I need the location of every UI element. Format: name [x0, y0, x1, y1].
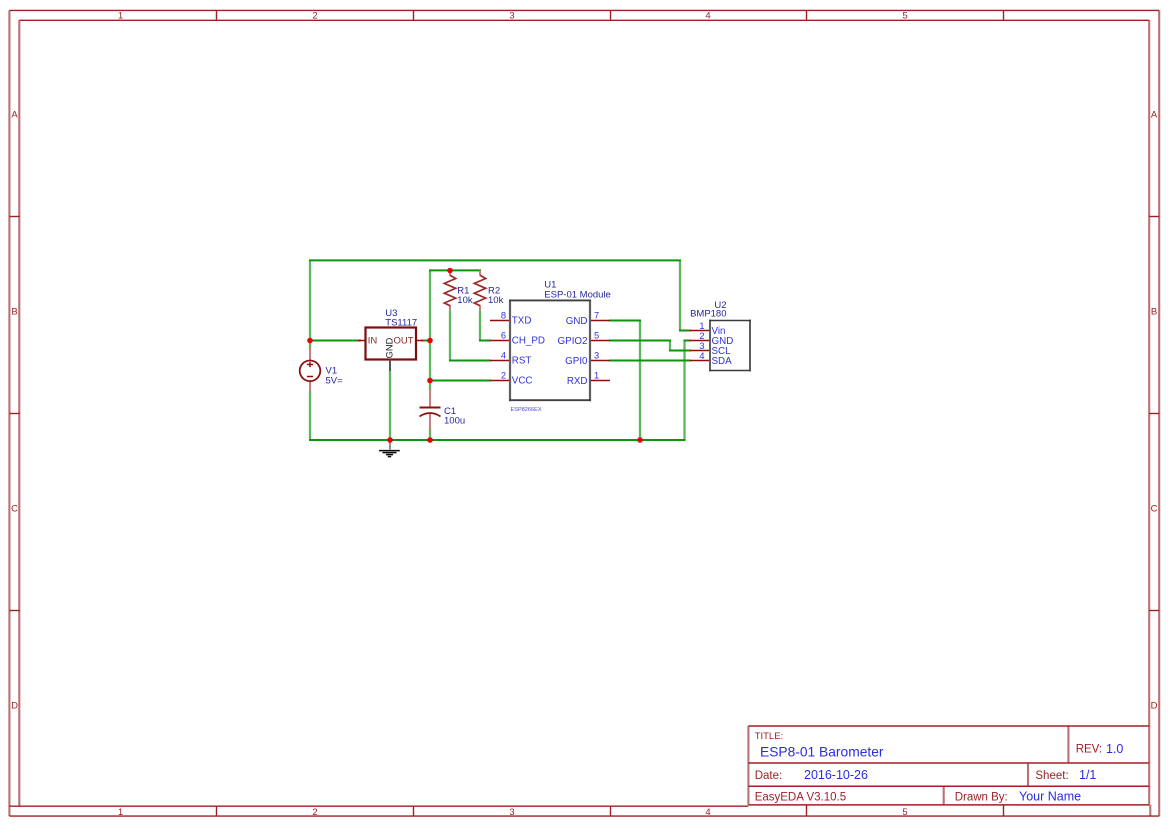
svg-text:1: 1: [594, 371, 599, 381]
svg-text:ESP-01 Module: ESP-01 Module: [544, 290, 611, 301]
svg-text:Your Name: Your Name: [1019, 790, 1081, 804]
svg-text:B: B: [11, 306, 17, 317]
svg-text:BMP180: BMP180: [690, 309, 726, 320]
svg-text:D: D: [11, 700, 18, 711]
svg-text:3: 3: [699, 341, 704, 351]
svg-text:SDA: SDA: [712, 356, 733, 367]
svg-text:GND: GND: [385, 337, 395, 358]
svg-text:1: 1: [118, 807, 123, 818]
svg-text:3: 3: [594, 351, 599, 361]
svg-text:2: 2: [312, 807, 317, 818]
svg-text:Drawn By:: Drawn By:: [955, 791, 1008, 803]
svg-text:5: 5: [594, 331, 599, 341]
svg-text:1/1: 1/1: [1079, 768, 1096, 782]
svg-text:1: 1: [699, 321, 704, 331]
svg-text:100u: 100u: [444, 415, 465, 426]
svg-text:4: 4: [705, 10, 710, 21]
svg-text:5: 5: [902, 10, 907, 21]
svg-text:IN: IN: [368, 336, 378, 347]
svg-text:RXD: RXD: [567, 376, 588, 387]
svg-text:2016-10-26: 2016-10-26: [804, 768, 868, 782]
svg-text:GPI0: GPI0: [565, 356, 588, 367]
svg-text:1: 1: [118, 10, 123, 21]
svg-text:RST: RST: [512, 356, 532, 367]
svg-text:TXD: TXD: [512, 316, 532, 327]
svg-text:8: 8: [501, 311, 506, 321]
svg-text:7: 7: [594, 311, 599, 321]
svg-text:2: 2: [699, 331, 704, 341]
svg-text:GPIO2: GPIO2: [558, 336, 588, 347]
svg-text:GND: GND: [566, 316, 588, 327]
svg-text:CH_PD: CH_PD: [512, 336, 545, 347]
svg-text:VCC: VCC: [512, 376, 533, 387]
svg-text:5: 5: [902, 807, 907, 818]
svg-text:B: B: [1151, 306, 1157, 317]
svg-text:10k: 10k: [488, 295, 504, 306]
svg-text:A: A: [11, 109, 18, 120]
svg-text:Date:: Date:: [755, 770, 783, 782]
svg-text:4: 4: [705, 807, 710, 818]
svg-text:REV:: REV:: [1076, 744, 1102, 756]
svg-text:C: C: [1151, 503, 1158, 514]
svg-text:5V=: 5V=: [326, 375, 344, 386]
svg-text:D: D: [1151, 700, 1158, 711]
svg-text:ESP8266EX: ESP8266EX: [511, 407, 542, 413]
svg-text:6: 6: [501, 331, 506, 341]
svg-text:3: 3: [509, 807, 514, 818]
svg-text:EasyEDA V3.10.5: EasyEDA V3.10.5: [755, 791, 846, 803]
svg-text:Sheet:: Sheet:: [1035, 770, 1068, 782]
svg-text:2: 2: [501, 371, 506, 381]
svg-text:4: 4: [501, 351, 506, 361]
svg-text:A: A: [1151, 109, 1158, 120]
svg-text:3: 3: [509, 10, 514, 21]
svg-text:10k: 10k: [457, 295, 473, 306]
svg-text:1.0: 1.0: [1106, 742, 1123, 756]
svg-text:C: C: [11, 503, 18, 514]
svg-text:2: 2: [312, 10, 317, 21]
svg-text:TS1117: TS1117: [385, 317, 417, 328]
svg-text:TITLE:: TITLE:: [755, 731, 784, 742]
svg-text:OUT: OUT: [393, 336, 413, 347]
svg-text:ESP8-01 Barometer: ESP8-01 Barometer: [760, 745, 884, 760]
svg-text:4: 4: [699, 351, 704, 361]
